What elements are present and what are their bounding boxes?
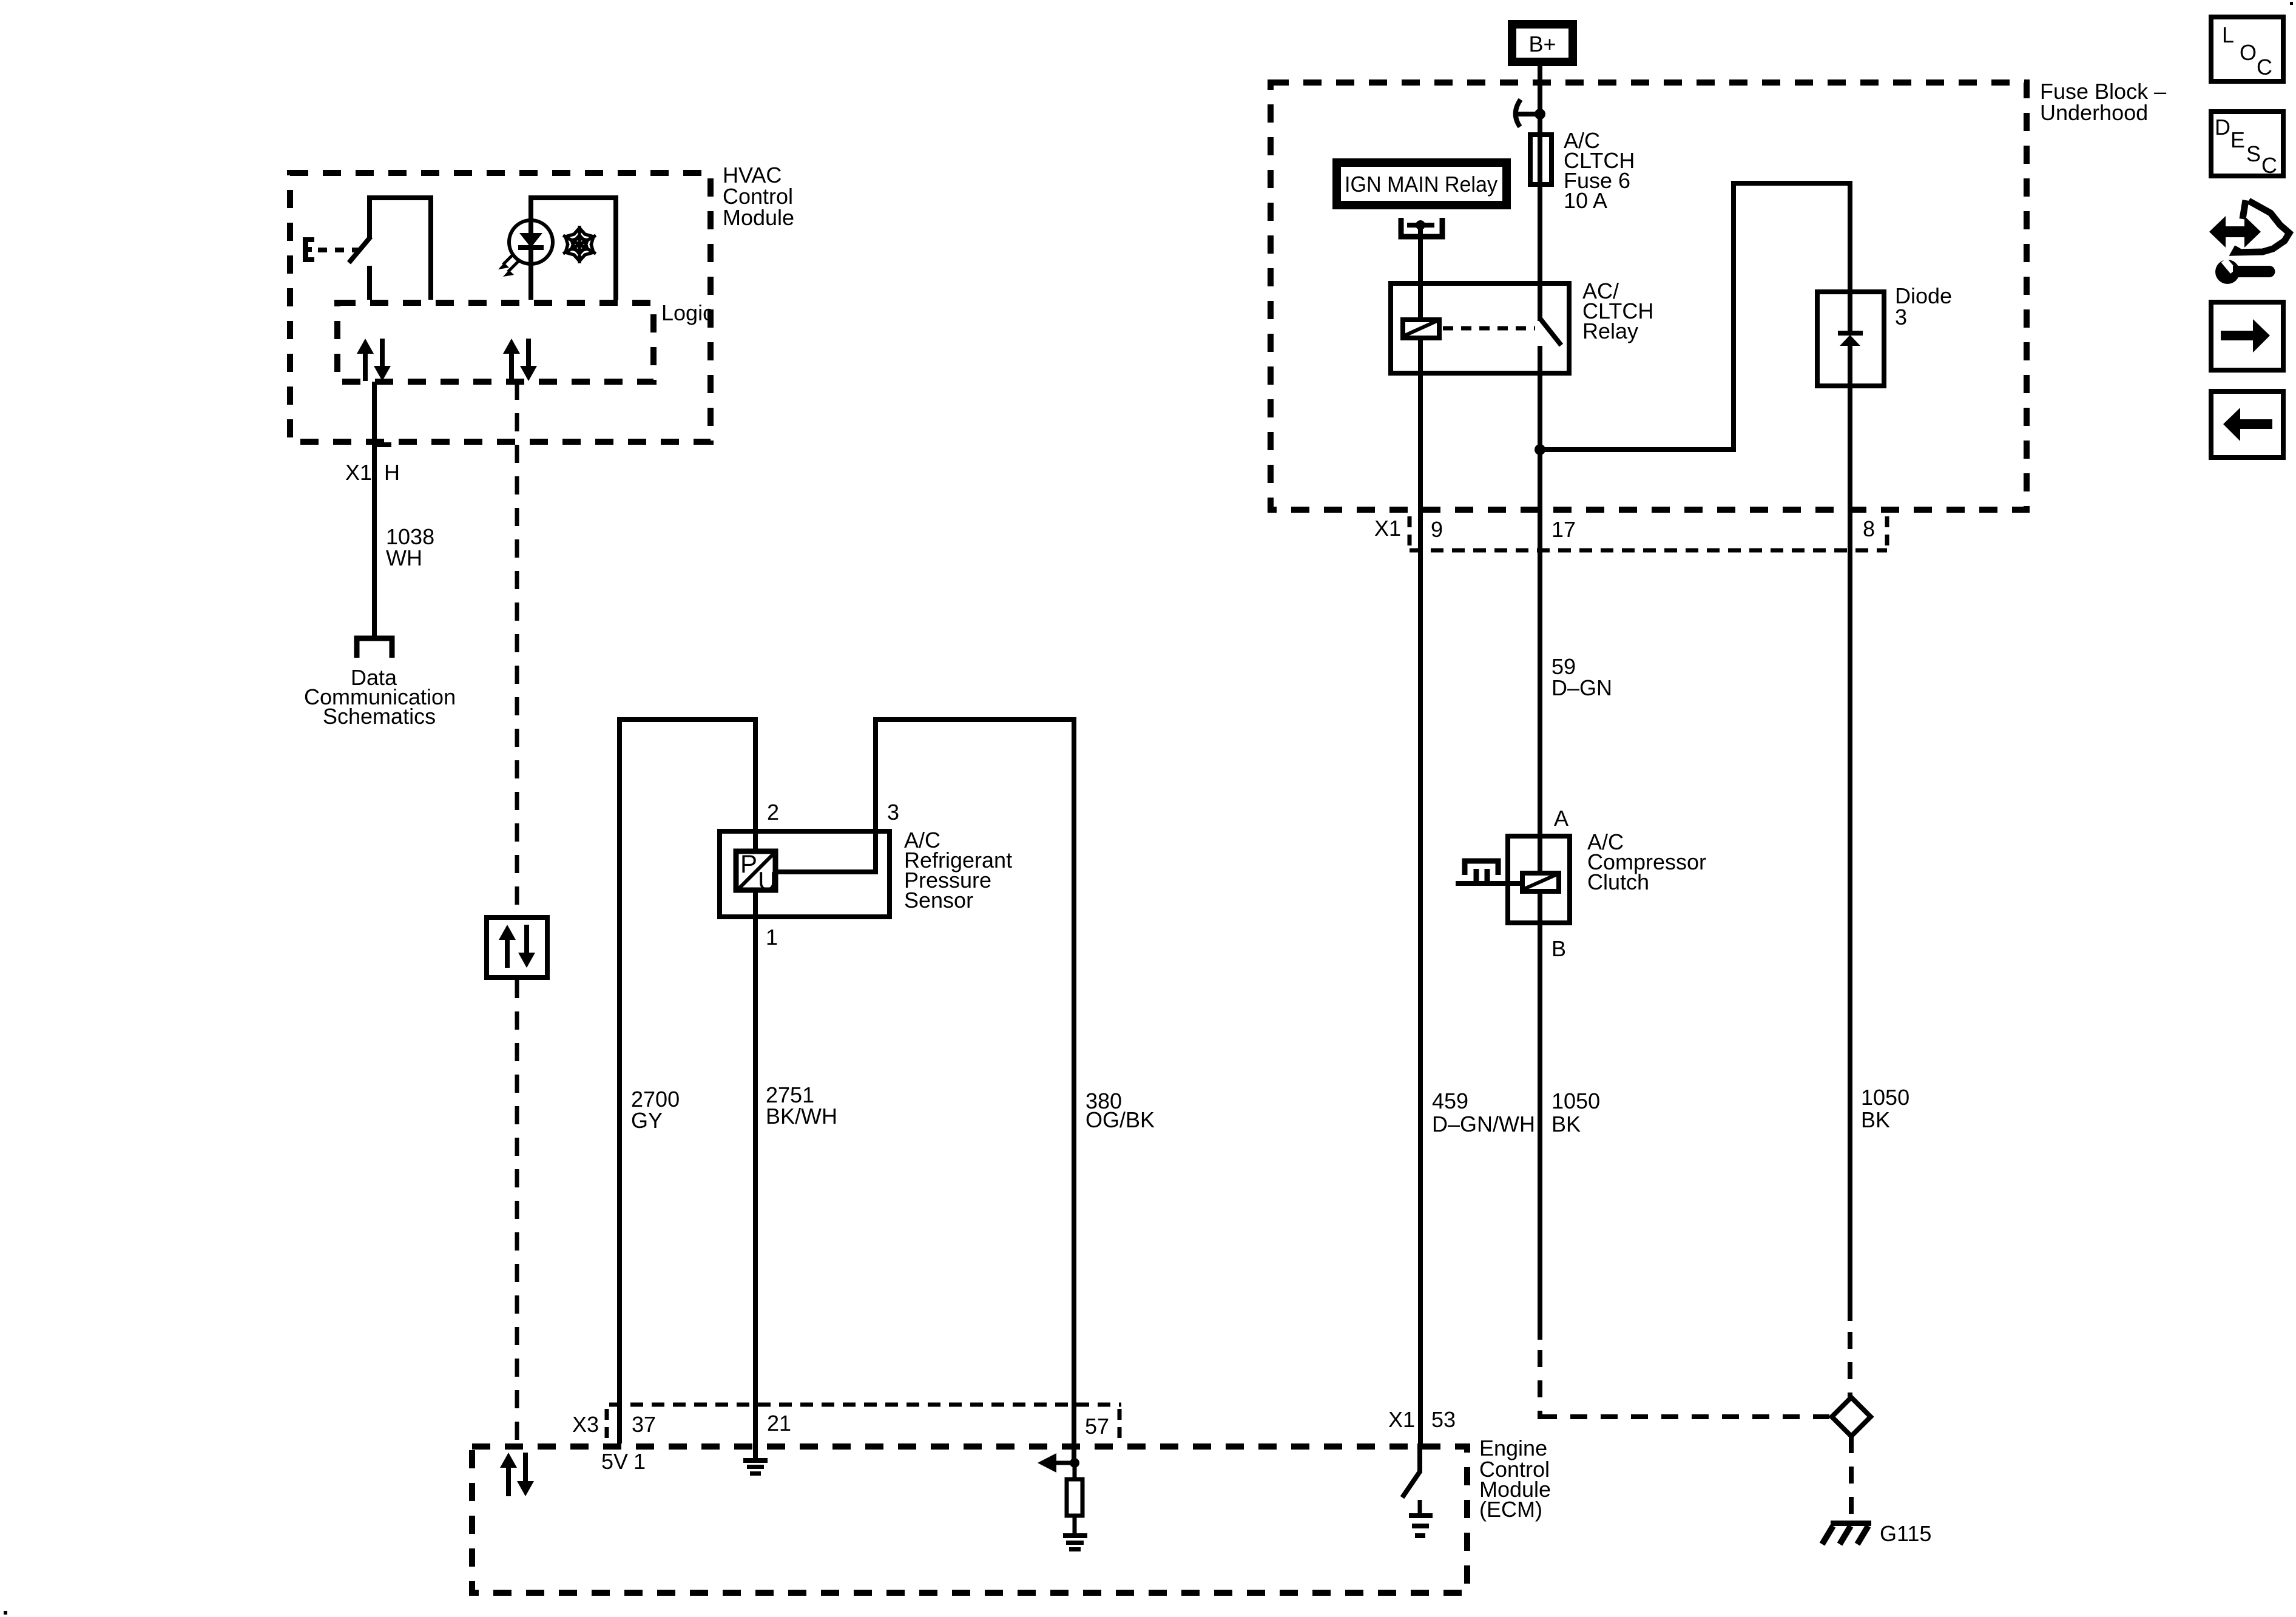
svg-text:10 A: 10 A bbox=[1564, 188, 1607, 213]
svg-text:Underhood: Underhood bbox=[2040, 100, 2148, 125]
svg-text:1050: 1050 bbox=[1551, 1089, 1600, 1113]
svg-text:3: 3 bbox=[1895, 305, 1907, 329]
svg-text:Relay: Relay bbox=[1582, 319, 1638, 343]
relay coil to switch dashed link bbox=[1443, 326, 1535, 331]
wire serial data dashed lower bbox=[515, 980, 519, 1443]
logic bidirectional arrows 1 bbox=[357, 339, 391, 381]
svg-text:X1: X1 bbox=[1374, 516, 1401, 541]
svg-text:D–GN/WH: D–GN/WH bbox=[1432, 1112, 1535, 1136]
wire labels left bbox=[631, 1082, 1155, 1133]
svg-text:1: 1 bbox=[633, 1449, 646, 1474]
connector to data communication bbox=[357, 638, 392, 658]
svg-text:Sensor: Sensor bbox=[904, 888, 973, 913]
svg-text:H: H bbox=[384, 460, 400, 485]
svg-text:X3: X3 bbox=[572, 1412, 599, 1437]
svg-text:S: S bbox=[2246, 141, 2261, 166]
svg-text:459: 459 bbox=[1432, 1089, 1468, 1113]
wire LED loop bbox=[528, 195, 618, 300]
svg-text:2: 2 bbox=[767, 800, 779, 825]
wire 59 D-GN label bbox=[1551, 654, 1612, 700]
wire B+ feed bbox=[1538, 66, 1542, 283]
fuse A/C CLTCH Fuse 6 bbox=[1530, 128, 1635, 213]
svg-text:C: C bbox=[2261, 153, 2277, 178]
svg-text:G115: G115 bbox=[1880, 1521, 1931, 1546]
wire 17 relay output bbox=[1538, 373, 1542, 834]
svg-text:B: B bbox=[1551, 936, 1566, 961]
wire relay coil feed bbox=[1418, 225, 1423, 320]
svg-text:Schematics: Schematics bbox=[323, 704, 436, 729]
LED indicator bbox=[498, 220, 553, 277]
wire 380 OG/BK loop bbox=[778, 717, 1076, 1463]
svg-text:E: E bbox=[2230, 127, 2245, 152]
P/U transducer bbox=[736, 849, 776, 895]
svg-text:8: 8 bbox=[1863, 516, 1875, 541]
ground G115 bbox=[1822, 1521, 1931, 1546]
ground at pin 53 bbox=[1409, 1500, 1433, 1538]
diode symbol bbox=[1838, 292, 1863, 388]
svg-text:D–GN: D–GN bbox=[1551, 675, 1612, 700]
svg-text:BK: BK bbox=[1551, 1112, 1581, 1136]
wire 8 to ground bbox=[1848, 388, 1852, 1397]
wire 2751 BK/WH pin1 bbox=[753, 890, 758, 1460]
wire diode loop bbox=[1540, 183, 1850, 450]
svg-text:17: 17 bbox=[1551, 517, 1576, 542]
switch S1 E-detent glyph bbox=[303, 237, 314, 262]
relay AC/CLTCH box bbox=[1391, 279, 1653, 373]
Logic box bbox=[337, 300, 714, 382]
snowflake A/C icon bbox=[563, 226, 596, 263]
svg-text:IGN MAIN Relay: IGN MAIN Relay bbox=[1345, 172, 1497, 197]
wire labels right bbox=[1432, 1085, 1909, 1136]
Engine Control Module box bbox=[472, 1436, 1551, 1593]
svg-text:GY: GY bbox=[631, 1108, 663, 1133]
svg-text:(ECM): (ECM) bbox=[1479, 1497, 1542, 1522]
wire 57 junction and arrow bbox=[1038, 1453, 1079, 1473]
A/C Compressor Clutch box bbox=[1508, 806, 1706, 961]
HVAC Control Module box bbox=[290, 163, 794, 442]
svg-text:L: L bbox=[2222, 22, 2234, 47]
svg-text:BK: BK bbox=[1861, 1107, 1890, 1132]
icon DESC bbox=[2211, 112, 2283, 178]
svg-text:OG/BK: OG/BK bbox=[1086, 1107, 1155, 1132]
svg-text:P: P bbox=[740, 849, 757, 878]
ECM bidirectional arrows bbox=[500, 1453, 534, 1496]
svg-text:A: A bbox=[1554, 806, 1568, 831]
current limiter hook bbox=[1516, 100, 1545, 127]
svg-text:Clutch: Clutch bbox=[1587, 869, 1649, 894]
node Data Communication Schematics bbox=[304, 665, 456, 729]
svg-text:1050: 1050 bbox=[1861, 1085, 1909, 1110]
svg-text:WH: WH bbox=[386, 545, 422, 570]
svg-text:5V: 5V bbox=[601, 1449, 628, 1474]
wire 1038 WH bbox=[345, 382, 434, 636]
clutch mechanical linkage bbox=[1456, 861, 1520, 883]
svg-text:9: 9 bbox=[1431, 517, 1443, 542]
pin 37 5V reference bbox=[601, 1449, 646, 1474]
svg-text:B+: B+ bbox=[1528, 32, 1556, 56]
Fuse Block Underhood box bbox=[1271, 79, 2166, 510]
svg-text:O: O bbox=[2240, 40, 2257, 65]
IGN MAIN Relay feed box bbox=[1337, 163, 1507, 205]
ECM driver switch pin 53 bbox=[1402, 1443, 1420, 1497]
junction diode tap bbox=[1535, 444, 1545, 455]
relay feed terminal bracket bbox=[1401, 218, 1442, 237]
svg-text:21: 21 bbox=[767, 1411, 791, 1436]
resistor in ECM bbox=[1067, 1463, 1082, 1533]
splice diamond bbox=[1832, 1397, 1871, 1436]
icon LOC bbox=[2211, 17, 2283, 81]
wire switch loop top bbox=[367, 195, 433, 300]
clutch coil bbox=[1522, 873, 1559, 891]
svg-text:3: 3 bbox=[887, 800, 899, 825]
serial data interface box bbox=[487, 917, 547, 977]
svg-text:53: 53 bbox=[1431, 1407, 1456, 1432]
svg-text:Module: Module bbox=[723, 205, 794, 230]
svg-text:37: 37 bbox=[632, 1412, 656, 1437]
wire clutch internal bbox=[1538, 834, 1542, 876]
A/C request switch bbox=[349, 195, 371, 300]
connector X1 53 labels bbox=[1388, 1407, 1456, 1432]
wire 9 coil ground side bbox=[1418, 338, 1423, 1447]
wire serial data dashed upper bbox=[515, 382, 519, 915]
ground at pin 21 bbox=[743, 1458, 768, 1476]
icon arrow back bbox=[2211, 391, 2283, 457]
svg-text:BK/WH: BK/WH bbox=[766, 1104, 837, 1129]
wire 1050 BK dashed to splice bbox=[1540, 1350, 1829, 1419]
svg-text:X1: X1 bbox=[345, 460, 372, 485]
icon diagnostic hand wrench bbox=[2209, 200, 2289, 284]
logic bidirectional arrows 2 bbox=[503, 339, 537, 381]
svg-text:U: U bbox=[758, 866, 776, 895]
svg-text:X1: X1 bbox=[1388, 1407, 1415, 1432]
switch linkage dashed wire bbox=[318, 248, 360, 252]
wire sensor pin2 internal bbox=[753, 831, 758, 851]
A/C Refrigerant Pressure Sensor box bbox=[720, 800, 1012, 950]
relay coil bbox=[1403, 320, 1439, 338]
relay switch bbox=[1540, 283, 1561, 373]
ground below resistor bbox=[1063, 1533, 1087, 1551]
svg-text:C: C bbox=[2257, 55, 2272, 79]
svg-text:D: D bbox=[2215, 115, 2230, 140]
icon arrow next bbox=[2211, 302, 2283, 370]
B+ power terminal bbox=[1512, 24, 1573, 62]
svg-text:57: 57 bbox=[1085, 1414, 1109, 1439]
wire 1050 BK below clutch bbox=[1538, 889, 1542, 1340]
wire splice to G115 dashed bbox=[1849, 1436, 1854, 1521]
diode 3 box bbox=[1817, 283, 1952, 386]
connector X3 strip bbox=[572, 1405, 1121, 1439]
connector X1 strip fuse block bbox=[1374, 516, 1887, 550]
svg-text:Logic: Logic bbox=[661, 300, 714, 325]
wire 2700 GY loop bbox=[617, 717, 758, 1443]
svg-text:1: 1 bbox=[766, 925, 778, 950]
